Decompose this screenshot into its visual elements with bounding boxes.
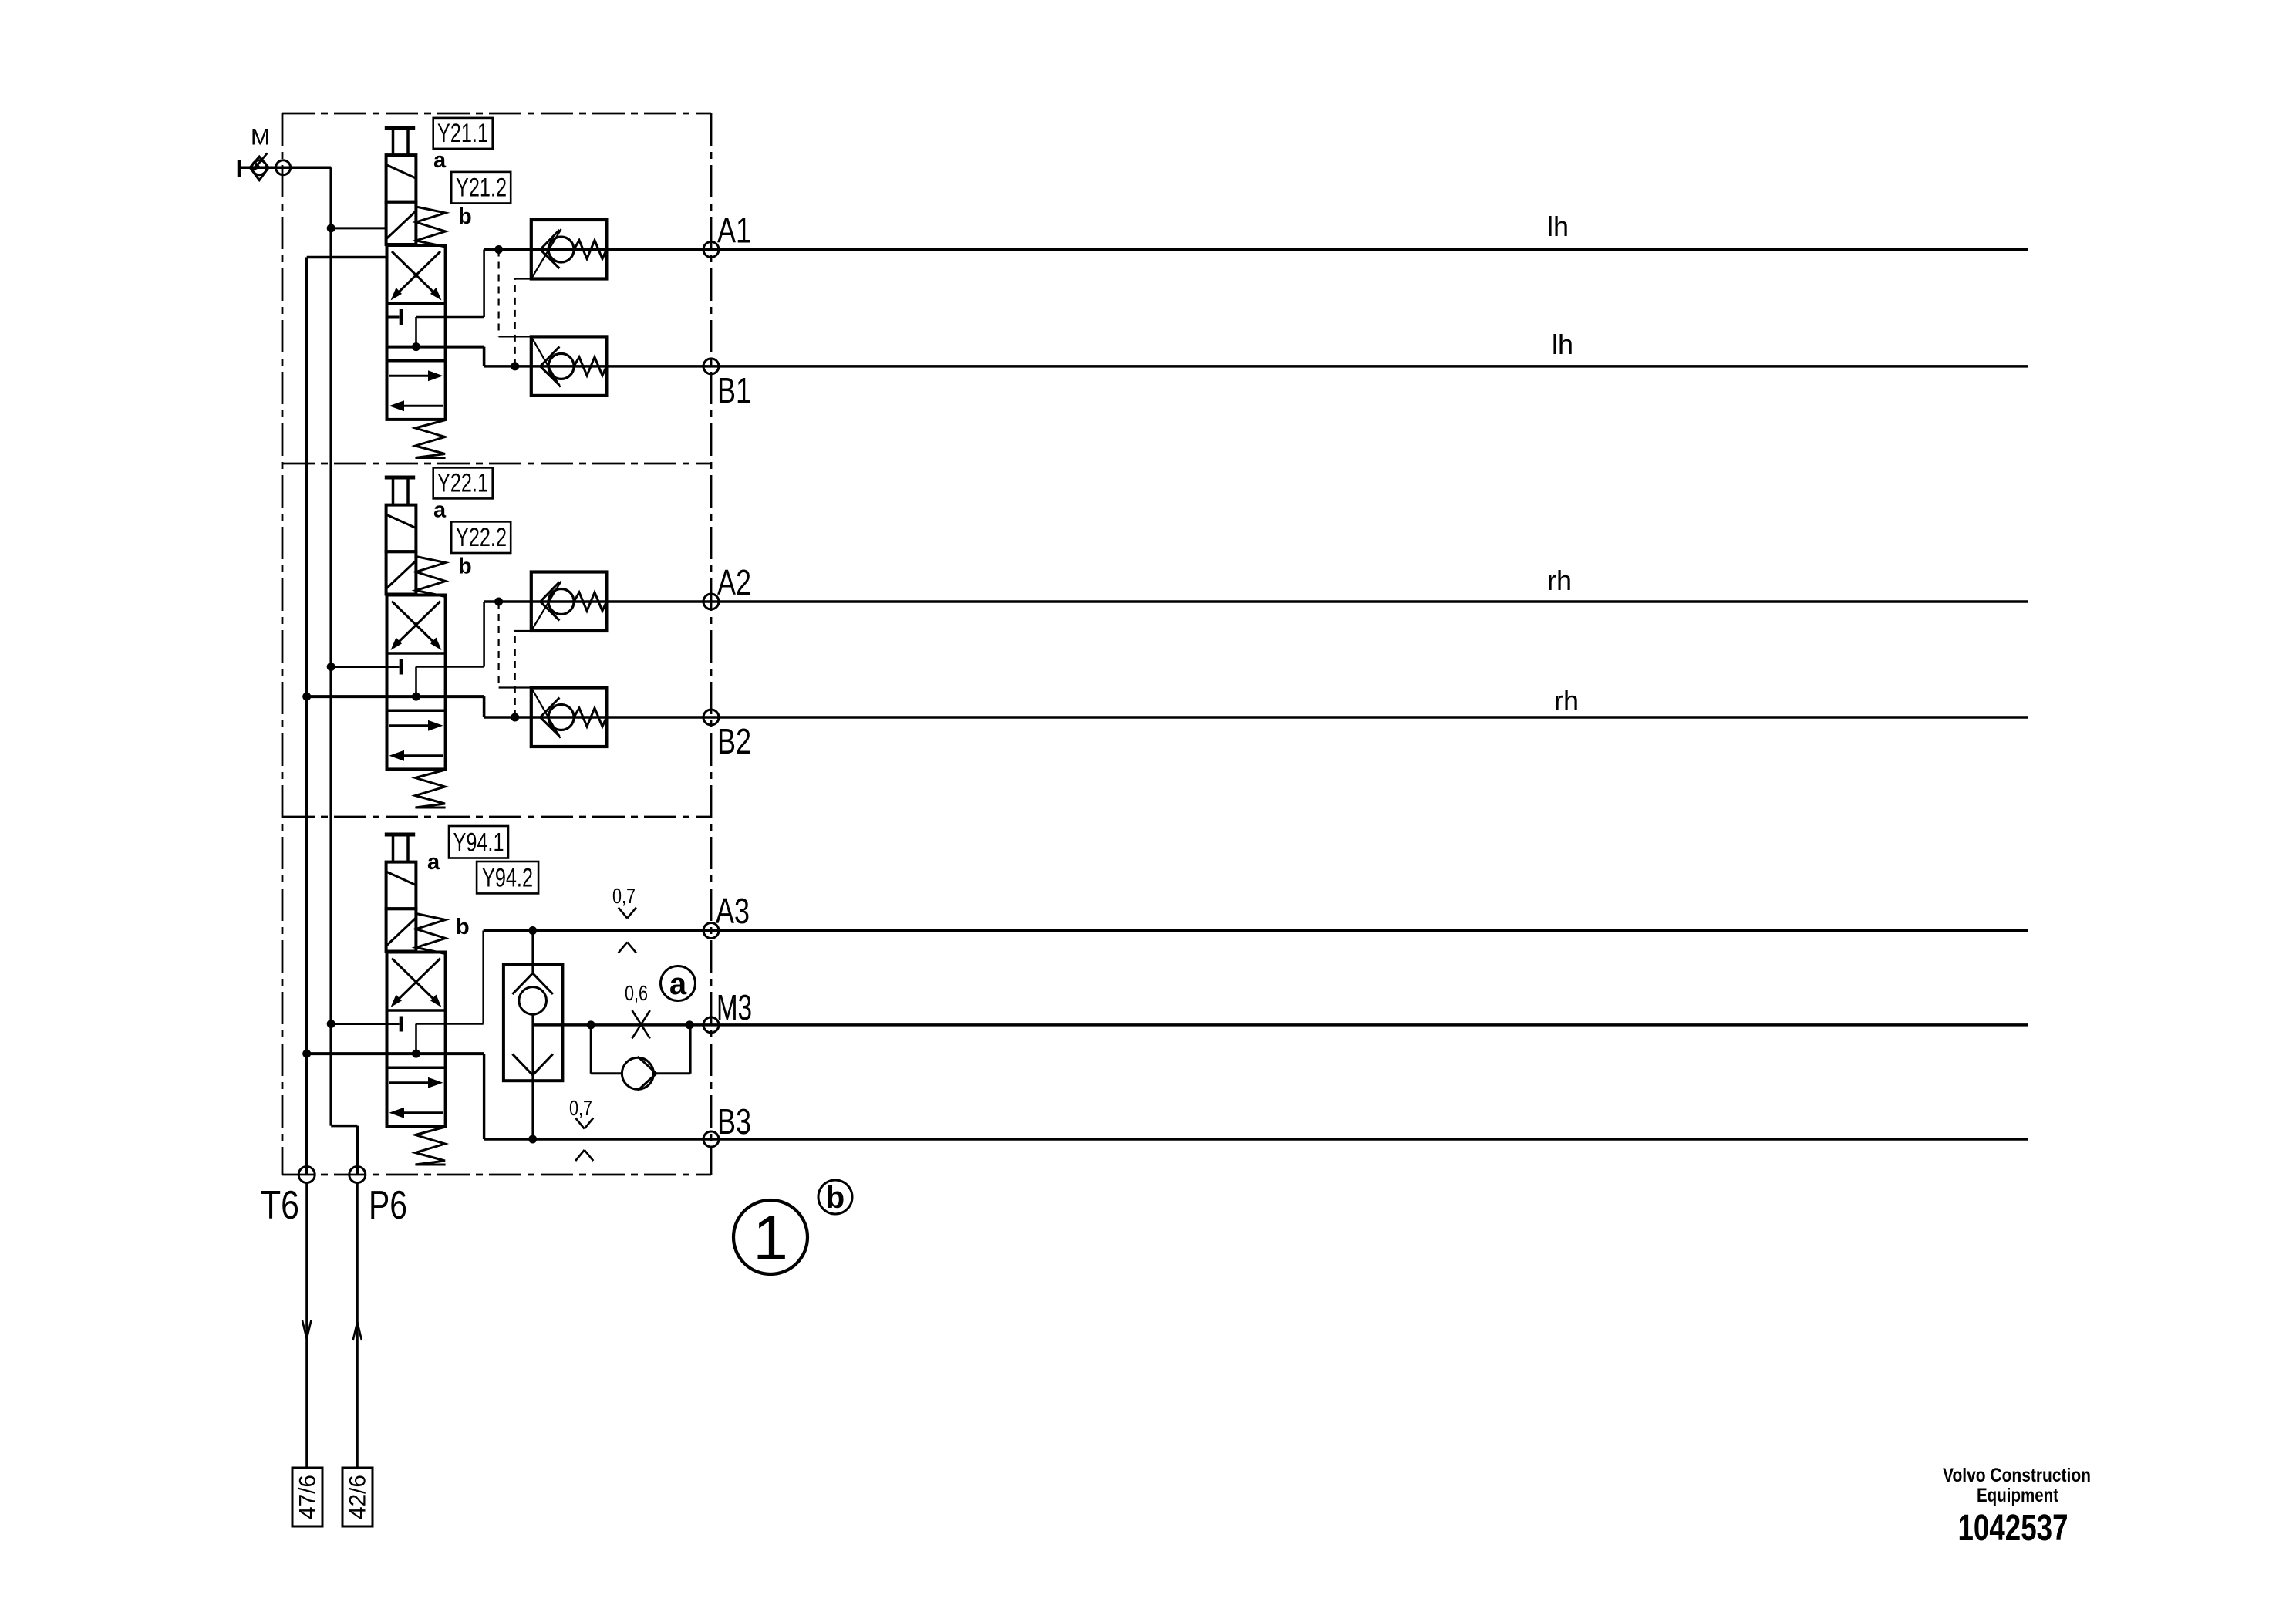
- svg-text:Y94.1: Y94.1: [453, 828, 504, 858]
- valve return spring 2: [416, 770, 446, 808]
- wire: B3 working line: [484, 1138, 2028, 1140]
- solenoid b box 3: [386, 909, 416, 951]
- svg-text:Y21.1: Y21.1: [437, 119, 488, 148]
- spring (b side) 2: [416, 557, 445, 597]
- crossed-arrows position 1: [394, 251, 441, 297]
- parallel-arrows position 2: [389, 724, 434, 727]
- wire: T6 down line: [305, 1183, 308, 1469]
- pilot operated check valve A1: [531, 220, 607, 279]
- wire: A1 working line: [484, 248, 2028, 251]
- spring (b side) 1: [416, 207, 445, 247]
- svg-text:rh: rh: [1554, 685, 1579, 717]
- section separator 2-3: [282, 816, 711, 818]
- pilot operated check valve B1: [531, 336, 607, 396]
- wire: riser to A3: [482, 931, 484, 1024]
- svg-text:a: a: [427, 850, 440, 875]
- parallel-arrows position 3: [389, 1081, 434, 1084]
- pilot line to lower check 2: [497, 602, 499, 688]
- wire: B1 working line: [484, 365, 2028, 368]
- wire: tap from P line to valve T symbol section 3: [327, 1020, 335, 1028]
- restrictor 0,7 on B3: [575, 1118, 585, 1129]
- node junction M3 bypass left: [587, 1020, 595, 1029]
- node port A1: [703, 242, 719, 258]
- measuring point symbol (diamond/circle with arrow): [250, 153, 268, 180]
- svg-text:a: a: [433, 148, 447, 173]
- svg-text:Equipment: Equipment: [1977, 1485, 2059, 1506]
- node M port circle: [276, 160, 291, 175]
- check ball: [519, 987, 547, 1015]
- wire: valve A-line L1 section 3: [416, 1023, 484, 1025]
- wire: vertical through dual check: [531, 931, 534, 974]
- wire: M gauge line: [239, 166, 331, 169]
- svg-text:B3: B3: [717, 1101, 751, 1141]
- spring (b side) 3: [416, 914, 445, 954]
- valve main body 1: [387, 245, 446, 420]
- valve actuator plunger 2: [385, 476, 415, 480]
- valve actuator plunger 1: [385, 126, 415, 130]
- pilot line to upper check 1: [514, 279, 516, 366]
- svg-text:1: 1: [753, 1203, 788, 1273]
- svg-text:b: b: [458, 204, 472, 229]
- solenoid b box 1: [386, 202, 416, 244]
- wire: drop to B3: [483, 1054, 485, 1139]
- parallel-arrows position 1: [389, 375, 434, 377]
- svg-text:a: a: [433, 498, 447, 523]
- label box Y94.1: [449, 826, 508, 858]
- wire: valve A-line L1 2: [416, 666, 484, 668]
- node junction on A1: [494, 245, 503, 254]
- wire: M3 working line: [533, 1023, 2028, 1027]
- label box Y22.2: [451, 521, 511, 553]
- wire: A2 working line: [484, 600, 2028, 603]
- manifold dash-dot border: [282, 113, 711, 115]
- wire: B2 working line: [484, 716, 2028, 719]
- wire: valve T-port line 1: [387, 316, 400, 319]
- pilot operated check valve B2: [531, 688, 607, 747]
- blocked centre position (T symbol) 1: [400, 309, 403, 325]
- crossed-arrows position 3: [394, 959, 441, 1004]
- line end tick: [238, 160, 241, 177]
- svg-text:b: b: [456, 915, 470, 939]
- node junction M3 bypass right: [686, 1020, 694, 1029]
- connector box 42/6: [342, 1468, 373, 1526]
- wire: valve P/B-line L2 1: [387, 346, 484, 349]
- svg-text:M: M: [251, 125, 270, 150]
- valve return spring 3: [416, 1127, 446, 1165]
- circled 1 sheet reference: [733, 1200, 807, 1274]
- wire: valve T-port line 2: [327, 663, 335, 671]
- svg-text:M3: M3: [716, 987, 752, 1027]
- svg-text:a: a: [669, 967, 687, 1001]
- svg-text:Y94.2: Y94.2: [482, 864, 533, 893]
- node junction A3/dual check: [528, 926, 537, 935]
- restrictor 0,7 on A3: [619, 908, 628, 919]
- node port A2: [703, 594, 719, 609]
- svg-text:lh: lh: [1552, 329, 1573, 360]
- wire: tank tap L2 section 3: [302, 1050, 311, 1058]
- svg-text:rh: rh: [1547, 565, 1572, 596]
- node port M3: [703, 1017, 719, 1033]
- svg-text:A3: A3: [716, 891, 750, 931]
- node junction B3/dual check: [528, 1135, 537, 1144]
- valve main body 2: [387, 595, 446, 770]
- svg-text:Volvo Construction: Volvo Construction: [1943, 1465, 2091, 1486]
- pilot line to lower check 1: [497, 250, 499, 337]
- circled a reference: [661, 966, 696, 1001]
- check seat down: [512, 1054, 532, 1075]
- node junction on A2: [494, 598, 503, 606]
- node port A3: [703, 923, 719, 939]
- svg-text:0,7: 0,7: [569, 1096, 592, 1120]
- dual check valve box: [504, 964, 563, 1081]
- node junction on B2: [511, 713, 519, 722]
- circled b reference: [818, 1180, 852, 1214]
- label box Y21.1: [433, 118, 493, 149]
- wire: tap from P line into solenoid b: [327, 224, 335, 232]
- arrow down on T6 line: [302, 1320, 307, 1339]
- svg-text:B1: B1: [717, 370, 751, 410]
- svg-text:T6: T6: [261, 1183, 299, 1228]
- solenoid a box 3: [386, 862, 416, 909]
- node port B1: [703, 359, 719, 374]
- svg-text:A1: A1: [717, 211, 751, 251]
- node junction on B1: [511, 362, 519, 370]
- arrow up on P6 line: [353, 1322, 358, 1340]
- pilot operated check valve A2: [531, 572, 607, 632]
- label box Y21.2: [451, 172, 511, 204]
- valve actuator plunger 3: [385, 833, 415, 837]
- valve main body 3: [387, 953, 446, 1127]
- label box Y22.1: [433, 467, 493, 498]
- solenoid a box 2: [386, 505, 416, 552]
- wire: pressure line P / M gauge line to P6: [329, 167, 332, 1125]
- bypass check valve: [622, 1057, 653, 1089]
- wire: drop to B1: [483, 347, 486, 366]
- blocked centre position (T symbol) 3: [400, 1017, 403, 1032]
- svg-text:b: b: [458, 555, 472, 579]
- svg-text:Y22.1: Y22.1: [437, 469, 488, 498]
- connector box 47/6: [292, 1468, 322, 1526]
- svg-text:Y22.2: Y22.2: [456, 523, 507, 552]
- svg-text:1042537: 1042537: [1958, 1508, 2068, 1549]
- label box Y94.2: [477, 862, 538, 893]
- solenoid b box 2: [386, 551, 416, 594]
- svg-text:A2: A2: [717, 562, 751, 602]
- wire: A3 working line: [484, 929, 2028, 932]
- node T6 port: [298, 1167, 315, 1183]
- section separator 1-2: [282, 463, 711, 465]
- wire: riser to A1: [483, 250, 485, 318]
- svg-text:B2: B2: [717, 721, 751, 761]
- blocked centre position (T symbol) 2: [400, 659, 403, 675]
- wire: tank line T to T6: [305, 258, 308, 1175]
- pilot line to upper check 2: [514, 631, 516, 717]
- solenoid a box 1: [386, 155, 416, 202]
- svg-text:lh: lh: [1547, 211, 1569, 242]
- node port B3: [703, 1131, 719, 1147]
- valve return spring 1: [416, 420, 446, 458]
- wire: valve A-line L1 1: [416, 316, 484, 319]
- crossed-arrows position 2: [394, 602, 441, 647]
- wire: P6 down line: [356, 1183, 359, 1469]
- svg-text:0,6: 0,6: [625, 981, 648, 1005]
- svg-text:0,7: 0,7: [612, 884, 636, 908]
- check seat up: [512, 973, 532, 994]
- wire: bypass loop: [590, 1025, 592, 1074]
- restrictor 0,6 on M3: [632, 1010, 650, 1038]
- wire: valve P/B-line L2 2: [302, 693, 311, 701]
- svg-text:42/6: 42/6: [346, 1475, 371, 1519]
- node port B2: [703, 710, 719, 725]
- wire: riser to A2: [483, 602, 485, 667]
- svg-text:Y21.2: Y21.2: [456, 174, 507, 203]
- svg-text:47/6: 47/6: [295, 1475, 321, 1519]
- node P6 port: [349, 1167, 366, 1183]
- wire: drop to B2: [483, 696, 486, 717]
- svg-text:P6: P6: [369, 1183, 407, 1228]
- svg-text:b: b: [826, 1181, 845, 1215]
